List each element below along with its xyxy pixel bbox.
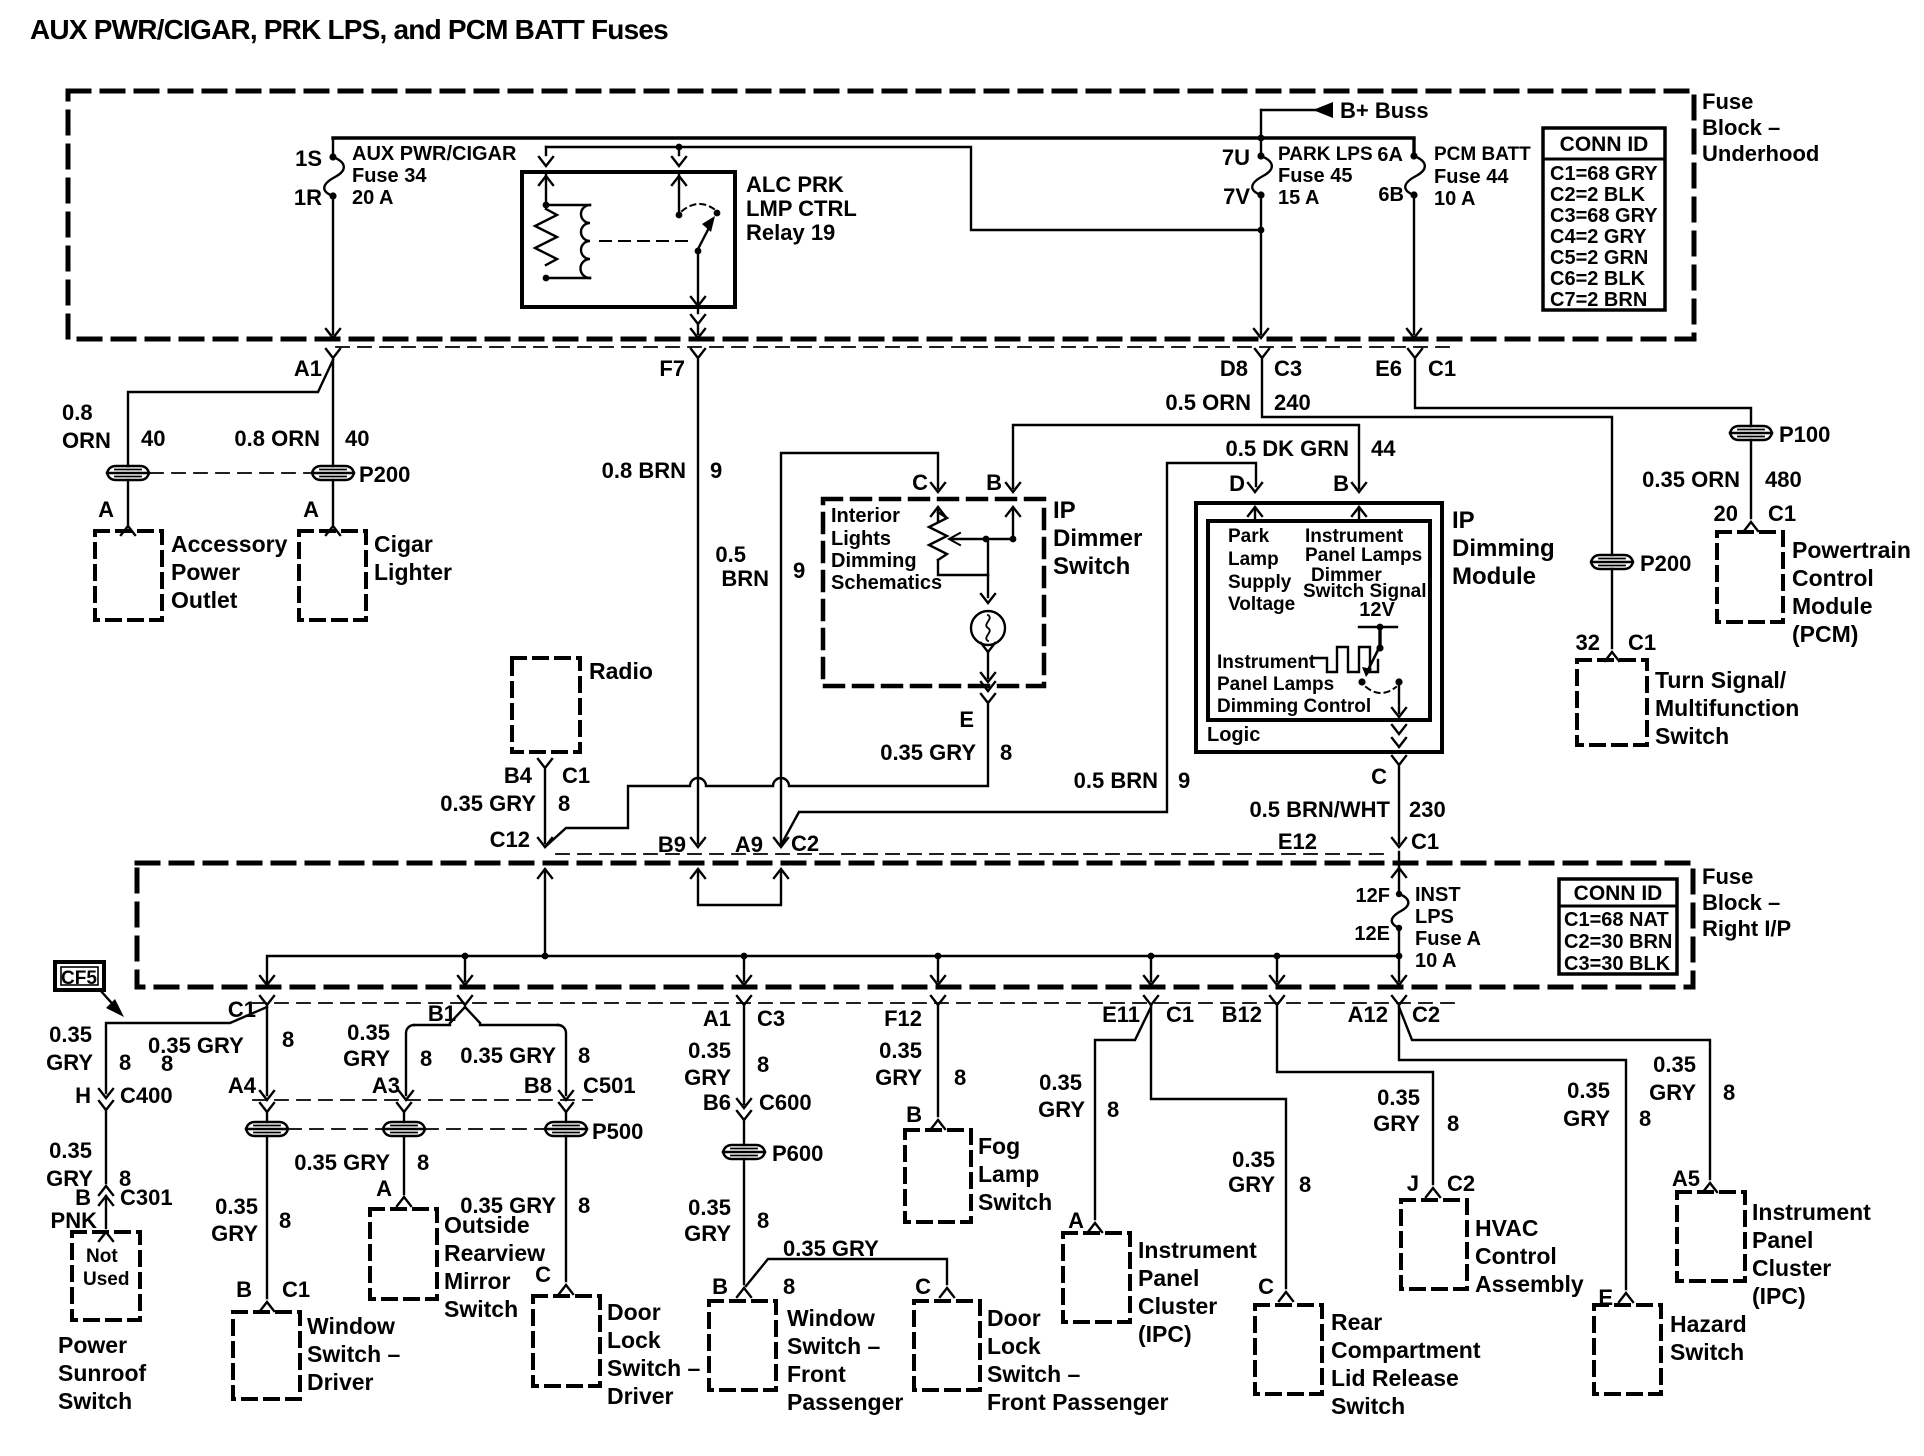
svg-text:B: B xyxy=(75,1185,91,1210)
svg-text:0.35: 0.35 xyxy=(1039,1070,1082,1095)
cigar lighter box xyxy=(299,531,366,620)
svg-text:H: H xyxy=(75,1083,91,1108)
svg-text:E12: E12 xyxy=(1278,829,1317,854)
wire E11 to rear compartment lid release xyxy=(1151,1007,1286,1288)
svg-text:Panel Lamps: Panel Lamps xyxy=(1217,674,1334,695)
svg-text:B: B xyxy=(906,1102,922,1127)
wire C1 to C400 xyxy=(106,1007,267,1093)
svg-text:Dimming Control: Dimming Control xyxy=(1217,696,1371,717)
connector A12 C2 xyxy=(1392,996,1406,1005)
svg-text:8: 8 xyxy=(578,1043,590,1068)
svg-text:Not: Not xyxy=(86,1246,118,1267)
HVAC control assembly box xyxy=(1401,1200,1467,1289)
svg-text:Switch: Switch xyxy=(444,1296,518,1322)
svg-text:P100: P100 xyxy=(1779,422,1830,447)
svg-text:Dimmer: Dimmer xyxy=(1053,525,1142,552)
wire E to C12 xyxy=(545,705,988,847)
svg-text:0.35: 0.35 xyxy=(49,1138,92,1163)
wire E6 to P100 xyxy=(1415,360,1751,426)
svg-text:A1: A1 xyxy=(703,1006,731,1031)
svg-text:Fuse: Fuse xyxy=(1702,864,1753,889)
svg-text:8: 8 xyxy=(954,1065,966,1090)
svg-text:C1: C1 xyxy=(1428,356,1456,381)
svg-text:Switch –: Switch – xyxy=(307,1341,401,1367)
svg-text:Logic: Logic xyxy=(1207,724,1260,746)
relay switch blade xyxy=(698,222,712,249)
svg-text:0.35 GRY: 0.35 GRY xyxy=(783,1236,879,1261)
svg-text:0.35: 0.35 xyxy=(215,1194,258,1219)
svg-text:HVAC: HVAC xyxy=(1475,1215,1538,1241)
svg-text:0.5 BRN: 0.5 BRN xyxy=(1074,768,1158,793)
splice P200 cigar xyxy=(312,466,354,480)
svg-text:Front Passenger: Front Passenger xyxy=(987,1389,1169,1415)
svg-text:B: B xyxy=(236,1277,252,1302)
svg-text:A12: A12 xyxy=(1348,1002,1388,1027)
wire dimmer B pin to dimming module B xyxy=(1013,425,1359,488)
svg-text:C3=30 BLK: C3=30 BLK xyxy=(1564,953,1671,975)
svg-text:P600: P600 xyxy=(772,1141,823,1166)
instrument panel cluster left box xyxy=(1063,1233,1130,1322)
svg-text:ALC PRK: ALC PRK xyxy=(746,172,844,197)
splice unnamed accessory xyxy=(107,466,149,480)
svg-text:8: 8 xyxy=(1107,1097,1119,1122)
svg-text:Compartment: Compartment xyxy=(1331,1337,1481,1363)
svg-text:Block –: Block – xyxy=(1702,890,1780,915)
svg-text:Dimming: Dimming xyxy=(831,550,917,572)
svg-text:Voltage: Voltage xyxy=(1228,594,1295,615)
svg-text:0.35: 0.35 xyxy=(1653,1052,1696,1077)
svg-text:0.35 GRY: 0.35 GRY xyxy=(880,740,976,765)
fog lamp switch box xyxy=(905,1130,971,1222)
dimming control switch blade xyxy=(1369,650,1378,668)
relay K19 ALC PRK LMP CTRL box xyxy=(522,172,735,307)
wire A12 to hazard switch xyxy=(1399,1007,1626,1289)
svg-text:E: E xyxy=(959,707,974,732)
svg-text:0.35 GRY: 0.35 GRY xyxy=(460,1043,556,1068)
connector D8 C3 xyxy=(1255,349,1269,358)
svg-text:Passenger: Passenger xyxy=(787,1389,903,1415)
splice P200 right xyxy=(1591,555,1633,569)
svg-text:Outlet: Outlet xyxy=(171,587,238,613)
svg-text:Switch: Switch xyxy=(978,1189,1052,1215)
svg-text:0.35 GRY: 0.35 GRY xyxy=(460,1193,556,1218)
svg-text:CONN ID: CONN ID xyxy=(1560,133,1649,156)
svg-text:Instrument: Instrument xyxy=(1138,1237,1257,1263)
radio box xyxy=(512,658,580,752)
connector B6 C600 xyxy=(737,1111,751,1120)
svg-text:LMP CTRL: LMP CTRL xyxy=(746,196,857,221)
connector A9 chevron xyxy=(774,838,788,847)
wire to door lock switch driver xyxy=(565,1136,567,1281)
IP dimmer switch box xyxy=(823,499,1044,686)
svg-text:(IPC): (IPC) xyxy=(1138,1321,1192,1347)
wire E11 to IPC A xyxy=(1095,1007,1151,1219)
svg-text:12E: 12E xyxy=(1354,923,1390,945)
wire B+ buss tap xyxy=(1260,110,1262,138)
svg-text:C3: C3 xyxy=(757,1006,785,1031)
wire P600 to window front passenger xyxy=(743,1159,745,1284)
svg-text:9: 9 xyxy=(710,458,722,483)
svg-text:(PCM): (PCM) xyxy=(1792,621,1858,647)
harness interface dashed line top xyxy=(336,346,1457,348)
svg-text:Driver: Driver xyxy=(307,1369,374,1395)
door lock switch driver box xyxy=(533,1296,600,1386)
svg-text:J: J xyxy=(1407,1171,1419,1196)
svg-text:0.35: 0.35 xyxy=(49,1022,92,1047)
wire fuse44 output to E6 xyxy=(1413,195,1415,334)
svg-text:C1: C1 xyxy=(282,1277,310,1302)
splice P500 xyxy=(545,1122,587,1136)
svg-text:C1=68 GRY: C1=68 GRY xyxy=(1550,163,1658,185)
svg-text:0.35: 0.35 xyxy=(1567,1078,1610,1103)
svg-text:PNK: PNK xyxy=(51,1208,98,1233)
svg-text:Switch: Switch xyxy=(58,1388,132,1414)
inline connector dashed line C501 xyxy=(253,1099,592,1101)
svg-text:8: 8 xyxy=(578,1193,590,1218)
svg-text:PCM BATT: PCM BATT xyxy=(1434,144,1531,165)
svg-text:C3=68 GRY: C3=68 GRY xyxy=(1550,205,1658,227)
fuse block right IP box xyxy=(137,863,1693,987)
svg-text:C2=30 BRN: C2=30 BRN xyxy=(1564,931,1672,953)
svg-text:0.8 ORN: 0.8 ORN xyxy=(234,426,320,451)
svg-text:20 A: 20 A xyxy=(352,187,394,209)
window switch front passenger box xyxy=(709,1301,776,1390)
svg-text:B6: B6 xyxy=(703,1090,731,1115)
svg-text:44: 44 xyxy=(1371,436,1396,461)
svg-text:8: 8 xyxy=(1723,1080,1735,1105)
jumper B9 to A9 inside fuse block xyxy=(698,870,781,905)
splice P600 xyxy=(723,1145,765,1159)
svg-text:LPS: LPS xyxy=(1415,906,1454,928)
module control output wire xyxy=(1398,682,1400,713)
svg-text:GRY: GRY xyxy=(1038,1097,1085,1122)
svg-text:Fog: Fog xyxy=(978,1133,1020,1159)
conn id table underhood xyxy=(1543,128,1665,310)
svg-text:Window: Window xyxy=(787,1305,875,1331)
svg-text:Radio: Radio xyxy=(589,658,653,684)
CF5 circuit tag xyxy=(55,962,104,990)
connector B12 xyxy=(1270,996,1284,1005)
svg-text:32: 32 xyxy=(1576,630,1600,655)
svg-text:1R: 1R xyxy=(294,185,322,210)
svg-text:CF5: CF5 xyxy=(61,968,97,989)
svg-text:B+ Buss: B+ Buss xyxy=(1340,98,1429,123)
splice P100 xyxy=(1730,426,1772,440)
svg-text:GRY: GRY xyxy=(684,1221,731,1246)
svg-text:A5: A5 xyxy=(1672,1166,1700,1191)
svg-text:C2=2 BLK: C2=2 BLK xyxy=(1550,184,1646,206)
svg-text:Lighter: Lighter xyxy=(374,559,452,585)
svg-text:Mirror: Mirror xyxy=(444,1268,511,1294)
svg-text:0.8 BRN: 0.8 BRN xyxy=(602,458,686,483)
svg-text:0.35 GRY: 0.35 GRY xyxy=(440,791,536,816)
svg-text:15 A: 15 A xyxy=(1278,187,1320,209)
svg-text:Switch: Switch xyxy=(1655,723,1729,749)
svg-text:8: 8 xyxy=(1639,1106,1651,1131)
svg-text:8: 8 xyxy=(279,1208,291,1233)
svg-text:Fuse: Fuse xyxy=(1702,89,1753,114)
svg-text:0.35: 0.35 xyxy=(347,1020,390,1045)
svg-text:1S: 1S xyxy=(295,146,322,171)
wire dimming module C to E12 xyxy=(1398,767,1400,843)
dimmer potentiometer xyxy=(937,510,939,521)
conn id table right IP xyxy=(1559,879,1677,974)
svg-text:F7: F7 xyxy=(659,356,685,381)
svg-text:Switch –: Switch – xyxy=(987,1361,1081,1387)
door lock switch front passenger box xyxy=(914,1301,980,1390)
wire A1 branch to accessory outlet xyxy=(128,360,333,466)
splice window driver xyxy=(246,1122,288,1136)
svg-text:0.35 ORN: 0.35 ORN xyxy=(1642,467,1740,492)
wire P100 to PCM pin 20 xyxy=(1750,440,1752,518)
svg-text:Fuse 34: Fuse 34 xyxy=(352,165,427,187)
wire branch to door lock front passenger xyxy=(746,1259,947,1286)
svg-text:CONN ID: CONN ID xyxy=(1574,882,1663,905)
connector E11 C1 xyxy=(1144,996,1158,1005)
svg-text:A3: A3 xyxy=(372,1073,400,1098)
svg-text:Front: Front xyxy=(787,1361,846,1387)
svg-text:IP: IP xyxy=(1053,497,1076,524)
svg-text:8: 8 xyxy=(119,1050,131,1075)
B+ Buss symbol xyxy=(1313,102,1333,118)
svg-text:C4=2 GRY: C4=2 GRY xyxy=(1550,226,1647,248)
svg-text:A4: A4 xyxy=(228,1073,257,1098)
wire B6 to P600 xyxy=(743,1120,745,1145)
svg-text:9: 9 xyxy=(793,558,805,583)
svg-text:Relay 19: Relay 19 xyxy=(746,220,835,245)
instrument panel cluster right box xyxy=(1677,1192,1745,1281)
svg-text:0.35: 0.35 xyxy=(879,1038,922,1063)
connector D xyxy=(1248,483,1262,492)
svg-text:C2: C2 xyxy=(791,831,819,856)
wire C1 to A4 xyxy=(266,1007,268,1095)
svg-text:Power: Power xyxy=(58,1332,127,1358)
dimmer illumination lamp xyxy=(971,611,1005,645)
svg-text:0.5 BRN/WHT: 0.5 BRN/WHT xyxy=(1249,797,1390,822)
svg-text:12V: 12V xyxy=(1359,599,1395,621)
svg-text:C: C xyxy=(912,470,928,495)
svg-text:Fuse 45: Fuse 45 xyxy=(1278,165,1352,187)
svg-text:GRY: GRY xyxy=(1228,1172,1275,1197)
svg-text:Panel: Panel xyxy=(1138,1265,1199,1291)
module D pin arrow xyxy=(1254,510,1256,521)
fuse block underhood box xyxy=(68,91,1694,339)
wire F7 to B9 vertical xyxy=(697,360,699,843)
svg-text:Panel Lamps: Panel Lamps xyxy=(1305,545,1422,566)
svg-text:D: D xyxy=(1229,471,1245,496)
svg-text:B8: B8 xyxy=(524,1073,552,1098)
svg-text:GRY: GRY xyxy=(343,1046,390,1071)
svg-text:C501: C501 xyxy=(583,1073,636,1098)
svg-text:C6=2 BLK: C6=2 BLK xyxy=(1550,268,1646,290)
dimmer lamp branch wire xyxy=(986,539,988,575)
wire to outside rearview mirror switch xyxy=(403,1136,405,1194)
relay switch pin xyxy=(678,147,680,155)
wire C400 to C301 xyxy=(105,1110,107,1183)
svg-text:Block –: Block – xyxy=(1702,115,1780,140)
wire B12 to HVAC xyxy=(1277,1007,1433,1184)
svg-text:0.35: 0.35 xyxy=(688,1038,731,1063)
svg-text:Turn Signal/: Turn Signal/ xyxy=(1655,667,1787,693)
wire A12 to IPC A5 xyxy=(1399,1007,1710,1179)
svg-text:8: 8 xyxy=(757,1208,769,1233)
wire B9 to dimmer C pin via A9 xyxy=(781,453,938,844)
wire A9 to dimming module D pin xyxy=(781,463,1256,845)
svg-text:IP: IP xyxy=(1452,507,1475,534)
connector C dimming module xyxy=(1392,756,1406,765)
svg-text:0.5 ORN: 0.5 ORN xyxy=(1165,390,1251,415)
not used box xyxy=(72,1232,140,1320)
connector E xyxy=(981,694,995,703)
svg-text:C1: C1 xyxy=(1768,501,1796,526)
svg-text:B: B xyxy=(986,470,1002,495)
svg-text:Assembly: Assembly xyxy=(1475,1271,1584,1297)
svg-text:C2: C2 xyxy=(1412,1002,1440,1027)
relay resistor xyxy=(543,202,550,209)
connector F12 xyxy=(931,996,945,1005)
svg-text:8: 8 xyxy=(417,1150,429,1175)
outside rearview mirror switch box xyxy=(370,1209,437,1299)
svg-text:GRY: GRY xyxy=(1649,1080,1696,1105)
connector F7 xyxy=(691,349,705,358)
svg-text:P500: P500 xyxy=(592,1119,643,1144)
svg-text:Module: Module xyxy=(1452,563,1536,590)
svg-text:Cluster: Cluster xyxy=(1138,1293,1217,1319)
svg-text:9: 9 xyxy=(1178,768,1190,793)
relay coil pin xyxy=(545,147,547,155)
svg-text:Lock: Lock xyxy=(987,1333,1041,1359)
svg-text:10 A: 10 A xyxy=(1415,950,1457,972)
svg-text:E6: E6 xyxy=(1375,356,1402,381)
svg-text:C1=68 NAT: C1=68 NAT xyxy=(1564,909,1669,931)
svg-text:0.35: 0.35 xyxy=(1232,1147,1275,1172)
svg-text:Instrument: Instrument xyxy=(1305,526,1404,547)
rear compartment lid release switch box xyxy=(1255,1305,1322,1394)
svg-text:8: 8 xyxy=(783,1274,795,1299)
svg-text:Switch: Switch xyxy=(1053,553,1130,580)
svg-text:GRY: GRY xyxy=(1373,1111,1420,1136)
svg-text:Used: Used xyxy=(83,1269,129,1290)
connector E6 C1 xyxy=(1408,349,1422,358)
svg-text:A: A xyxy=(303,497,319,522)
harness interface dashed line middle xyxy=(556,853,1392,855)
svg-text:Sunroof: Sunroof xyxy=(58,1360,146,1386)
svg-text:0.8: 0.8 xyxy=(62,400,93,425)
svg-text:Door: Door xyxy=(987,1305,1041,1331)
svg-text:Instrument: Instrument xyxy=(1217,652,1316,673)
svg-text:7U: 7U xyxy=(1222,145,1250,170)
svg-text:Underhood: Underhood xyxy=(1702,141,1819,166)
svg-text:6A: 6A xyxy=(1377,144,1403,166)
svg-text:Door: Door xyxy=(607,1299,661,1325)
svg-text:Switch –: Switch – xyxy=(607,1355,701,1381)
wire A1 to P200 xyxy=(332,360,334,466)
svg-text:40: 40 xyxy=(141,426,165,451)
connector A1 C3 xyxy=(737,996,751,1005)
wire fuse34 output to A1 xyxy=(332,196,334,334)
svg-text:20: 20 xyxy=(1714,501,1738,526)
svg-text:Hazard: Hazard xyxy=(1670,1311,1747,1337)
lamp output wire to E xyxy=(981,643,995,652)
svg-text:8: 8 xyxy=(1000,740,1012,765)
fuse A INST LPS xyxy=(1398,852,1400,894)
svg-text:Driver: Driver xyxy=(607,1383,674,1409)
svg-text:AUX PWR/CIGAR: AUX PWR/CIGAR xyxy=(352,143,517,165)
svg-text:10 A: 10 A xyxy=(1434,188,1476,210)
svg-text:Switch: Switch xyxy=(1331,1393,1405,1419)
svg-text:Window: Window xyxy=(307,1313,395,1339)
svg-text:C1: C1 xyxy=(562,763,590,788)
wire to window switch driver xyxy=(266,1136,268,1298)
svg-text:C400: C400 xyxy=(120,1083,173,1108)
wire P200 to turn signal switch xyxy=(1611,569,1613,648)
svg-text:C: C xyxy=(1371,764,1387,789)
splice row chevrons xyxy=(260,1103,274,1112)
svg-text:A: A xyxy=(376,1176,392,1201)
svg-text:C12: C12 xyxy=(490,827,530,852)
connector B dimming module xyxy=(1352,483,1366,492)
svg-text:P200: P200 xyxy=(1640,551,1691,576)
svg-text:BRN: BRN xyxy=(721,566,769,591)
svg-text:C: C xyxy=(1258,1274,1274,1299)
svg-text:12F: 12F xyxy=(1356,885,1390,907)
svg-text:B: B xyxy=(1333,471,1349,496)
relay coil-to-switch dashed link xyxy=(600,240,690,242)
relay feed wire xyxy=(546,147,1261,230)
connector B1 xyxy=(458,996,472,1005)
svg-text:Lamp: Lamp xyxy=(978,1161,1039,1187)
IP dimming module outer box xyxy=(1196,503,1442,752)
wire A1 to B6 xyxy=(743,1007,745,1104)
svg-text:0.5: 0.5 xyxy=(715,542,746,567)
svg-text:GRY: GRY xyxy=(211,1221,258,1246)
svg-text:Schematics: Schematics xyxy=(831,572,942,594)
svg-text:Control: Control xyxy=(1475,1243,1557,1269)
svg-text:Cluster: Cluster xyxy=(1752,1255,1831,1281)
wire splice to accessory outlet pin A xyxy=(127,480,129,524)
svg-text:C2: C2 xyxy=(1447,1171,1475,1196)
svg-text:Park: Park xyxy=(1228,526,1270,547)
svg-text:Interior: Interior xyxy=(831,505,900,527)
svg-text:8: 8 xyxy=(282,1027,294,1052)
square wave symbol xyxy=(1311,647,1378,672)
svg-text:F12: F12 xyxy=(884,1006,922,1031)
svg-text:Switch –: Switch – xyxy=(787,1333,881,1359)
svg-text:Power: Power xyxy=(171,559,240,585)
svg-text:(IPC): (IPC) xyxy=(1752,1283,1806,1309)
wire fuse45 output to D8 xyxy=(1260,195,1262,334)
wire F12 to fog lamp switch xyxy=(937,1007,939,1116)
turn signal multifunction switch box xyxy=(1577,660,1647,745)
svg-text:B12: B12 xyxy=(1222,1002,1262,1027)
svg-text:C1: C1 xyxy=(1166,1002,1194,1027)
svg-text:8: 8 xyxy=(558,791,570,816)
svg-text:Lock: Lock xyxy=(607,1327,661,1353)
accessory power outlet box xyxy=(95,531,162,620)
splice link dashed xyxy=(150,472,310,474)
svg-text:A: A xyxy=(1068,1208,1084,1233)
svg-text:E11: E11 xyxy=(1102,1002,1140,1027)
svg-text:GRY: GRY xyxy=(684,1065,731,1090)
svg-text:B4: B4 xyxy=(504,763,533,788)
svg-text:C: C xyxy=(915,1274,931,1299)
svg-text:C301: C301 xyxy=(120,1185,173,1210)
svg-text:B: B xyxy=(712,1274,728,1299)
fuse F34 AUX PWR/CIGAR xyxy=(332,138,334,157)
bus wire inside right IP fuse block xyxy=(267,956,1399,985)
svg-text:A1: A1 xyxy=(294,356,322,381)
svg-text:230: 230 xyxy=(1409,797,1446,822)
